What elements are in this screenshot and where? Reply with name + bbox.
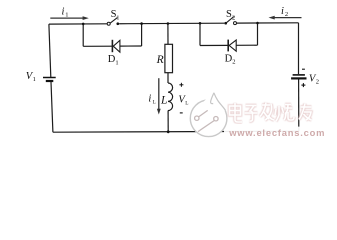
inductor voltage plus sign	[179, 83, 183, 87]
watermark logo pad right	[214, 117, 218, 121]
battery V1 positive plate	[43, 77, 56, 79]
diode D1 cathode bar	[111, 40, 113, 52]
battery V1 negative plate	[46, 80, 54, 82]
node middle branch top	[167, 22, 170, 25]
wire D2 loop left vertical	[199, 23, 201, 45]
current arrow i1	[50, 16, 89, 20]
wire left rail upper	[49, 24, 51, 77]
diode D1 triangle	[113, 40, 120, 52]
inductor L coil	[168, 83, 173, 111]
inductor voltage minus sign	[180, 112, 183, 114]
battery V2 top plate	[293, 74, 305, 76]
svg-text:1: 1	[115, 59, 118, 66]
svg-text:i: i	[62, 7, 65, 18]
svg-text:2: 2	[285, 11, 288, 18]
inductor current arrow iL	[157, 78, 161, 114]
diode D2 cathode bar	[227, 40, 229, 52]
watermark www backing band	[224, 127, 334, 139]
wire middle branch bottom	[167, 111, 169, 132]
switch S1 lever	[110, 18, 117, 24]
wire right rail upper	[298, 23, 300, 74]
node D2 loop left	[199, 22, 202, 25]
watermark chinese characters (stylised)	[230, 103, 312, 123]
svg-text:www.elecfans.com: www.elecfans.com	[228, 127, 325, 138]
diode D2 triangle	[229, 40, 236, 51]
wire top rail segment middle	[119, 22, 224, 25]
wire left rail lower	[51, 82, 53, 132]
wire middle branch between R and L	[167, 73, 169, 83]
watermark logo trace line upper	[199, 110, 208, 117]
watermark character backing band	[226, 104, 297, 128]
svg-text:1: 1	[116, 14, 119, 21]
watermark logo circle	[190, 100, 227, 137]
node D1 loop right	[140, 22, 143, 25]
wire D1 loop right vertical	[141, 24, 143, 46]
wire right rail lower	[298, 79, 300, 131]
switch S1 open contact circle	[107, 22, 110, 25]
wire bottom rail	[53, 131, 299, 132]
wire D2 loop right vertical	[257, 23, 259, 45]
wire top rail segment right	[236, 22, 298, 24]
svg-text:i: i	[281, 6, 284, 17]
node D2 loop right	[256, 22, 259, 25]
node D1 loop left	[82, 23, 85, 26]
current arrow i2	[269, 16, 302, 20]
wire D1 loop left vertical	[82, 24, 84, 46]
node S2 left contact	[224, 22, 227, 25]
svg-text:1: 1	[65, 12, 68, 19]
wire D1 loop bottom left	[83, 45, 112, 47]
wire D1 loop bottom right	[120, 45, 142, 47]
watermark chinese characters white core	[230, 103, 312, 123]
svg-text:2: 2	[316, 79, 319, 86]
wire top rail segment left	[49, 23, 107, 25]
battery V2 bottom plate	[291, 77, 306, 79]
svg-text:i: i	[148, 94, 151, 105]
switch S2 open contact circle	[234, 22, 237, 25]
watermark logo pad left	[195, 116, 199, 120]
switch S2 lever	[227, 17, 234, 23]
node S1 right contact	[116, 22, 119, 25]
resistor R body	[165, 44, 173, 72]
svg-text:L: L	[153, 100, 156, 106]
node middle branch bottom	[167, 130, 170, 133]
svg-text:2: 2	[232, 59, 235, 66]
battery V2 minus sign	[302, 68, 305, 70]
wire D2 loop bottom left	[200, 44, 228, 46]
svg-text:R: R	[156, 54, 164, 66]
svg-text:L: L	[185, 101, 188, 107]
watermark logo trace line lower	[198, 121, 214, 132]
svg-text:1: 1	[33, 76, 36, 83]
battery V2 plus sign	[301, 83, 305, 87]
svg-text:L: L	[160, 94, 167, 106]
watermark logo notch	[204, 93, 227, 112]
wire D2 loop bottom right	[236, 44, 257, 46]
wire middle branch top	[167, 24, 169, 45]
svg-text:2: 2	[232, 14, 235, 21]
node junction dots	[82, 22, 259, 134]
